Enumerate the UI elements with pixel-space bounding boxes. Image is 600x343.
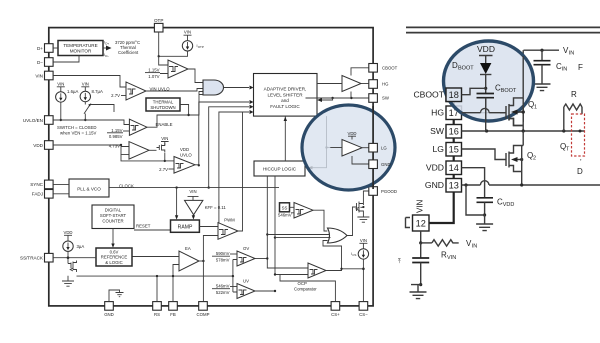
svg-text:ENABLE: ENABLE [156, 122, 173, 127]
svg-text:SHUTDOWN: SHUTDOWN [150, 105, 175, 110]
svg-text:1.15V: 1.15V [111, 128, 122, 133]
svg-text:546mV: 546mV [216, 284, 230, 289]
svg-text:VDD: VDD [33, 143, 43, 148]
svg-text:8.7µA: 8.7µA [92, 89, 103, 94]
svg-text:VIN: VIN [161, 136, 168, 141]
svg-text:CS−: CS− [359, 312, 368, 317]
svg-text:CS: CS [352, 253, 356, 257]
svg-text:VIN: VIN [57, 81, 64, 86]
svg-text:RAMP: RAMP [178, 225, 193, 231]
svg-text:578mV: 578mV [216, 257, 230, 262]
svg-text:DIGITAL: DIGITAL [105, 208, 122, 213]
svg-text:D−: D− [105, 54, 109, 58]
svg-text:SW: SW [382, 96, 390, 101]
svg-text:IN: IN [569, 51, 575, 57]
svg-text:RS: RS [154, 312, 160, 317]
svg-text:16: 16 [449, 127, 459, 137]
svg-text:VIN: VIN [35, 73, 43, 78]
svg-text:Comparator: Comparator [294, 286, 317, 291]
svg-text:SS/TRACK: SS/TRACK [20, 256, 44, 261]
svg-text:D: D [577, 167, 583, 176]
svg-text:VDD: VDD [426, 163, 444, 173]
svg-text:COUNTER: COUNTER [102, 218, 123, 223]
svg-text:VIN: VIN [82, 81, 89, 86]
svg-text:UVLO/EN: UVLO/EN [23, 118, 43, 123]
svg-text:HG: HG [382, 82, 389, 87]
svg-text:PWM: PWM [224, 217, 235, 222]
svg-text:VDD: VDD [477, 44, 495, 54]
svg-text:D+: D+ [105, 42, 109, 46]
svg-text:PGOOD: PGOOD [381, 189, 397, 194]
svg-text:VIN: VIN [184, 30, 191, 35]
svg-text:VIN: VIN [447, 255, 456, 261]
svg-text:CLOCK: CLOCK [119, 184, 134, 189]
svg-text:0.985V: 0.985V [109, 134, 123, 139]
svg-text:2.7V: 2.7V [111, 93, 120, 98]
svg-text:VDD: VDD [503, 202, 515, 208]
svg-text:GND: GND [104, 312, 114, 317]
svg-text:CBOOT: CBOOT [413, 90, 444, 100]
svg-text:GND: GND [425, 180, 444, 190]
svg-text:3µA: 3µA [77, 244, 85, 249]
svg-text:ADAPTIVE DRIVER,: ADAPTIVE DRIVER, [264, 87, 307, 92]
svg-text:& LOGIC: & LOGIC [105, 260, 122, 265]
svg-text:UV: UV [243, 278, 249, 283]
svg-text:CS+: CS+ [331, 312, 340, 317]
svg-text:LG: LG [433, 144, 445, 154]
svg-text:VIN: VIN [360, 238, 367, 243]
svg-text:2.7V: 2.7V [159, 167, 168, 172]
svg-text:VDD: VDD [63, 230, 72, 235]
svg-text:LEVEL SHIFTER: LEVEL SHIFTER [267, 92, 303, 97]
svg-text:VDD: VDD [347, 131, 356, 136]
svg-text:590mV: 590mV [216, 251, 230, 256]
svg-text:IN: IN [472, 244, 478, 250]
svg-text:⤒: ⤒ [398, 258, 401, 265]
svg-text:SOFT-START: SOFT-START [100, 213, 127, 218]
svg-text:1.15V: 1.15V [148, 68, 159, 73]
svg-text:2: 2 [533, 156, 536, 162]
svg-text:F: F [578, 63, 583, 72]
svg-text:when V​EN = 1.15V: when V​EN = 1.15V [60, 130, 97, 135]
svg-text:TEMPERATURE: TEMPERATURE [63, 43, 97, 48]
svg-text:1: 1 [534, 105, 537, 111]
svg-text:R: R [571, 90, 577, 99]
svg-text:12: 12 [416, 219, 426, 229]
svg-text:SW: SW [430, 126, 445, 136]
svg-text:OTP: OTP [154, 18, 163, 23]
svg-text:15: 15 [449, 145, 459, 155]
svg-text:D−: D− [37, 60, 43, 65]
svg-text:UVLO: UVLO [180, 152, 192, 157]
svg-text:THERMAL: THERMAL [153, 100, 174, 105]
svg-text:Coefficient: Coefficient [118, 50, 139, 55]
svg-text:14: 14 [449, 163, 459, 173]
svg-text:EA: EA [185, 246, 191, 251]
svg-text:COMP: COMP [197, 312, 210, 317]
svg-text:SS: SS [282, 205, 288, 210]
svg-text:BOOT: BOOT [458, 66, 474, 72]
svg-text:D+: D+ [37, 46, 43, 51]
svg-text:PLL & VCO: PLL & VCO [77, 186, 101, 191]
svg-text:RESET: RESET [136, 224, 151, 229]
svg-text:522mV: 522mV [216, 290, 230, 295]
svg-text:SYNC: SYNC [30, 182, 43, 187]
svg-text:546mV: 546mV [278, 212, 292, 217]
svg-text:MONITOR: MONITOR [70, 49, 92, 54]
svg-text:LG: LG [381, 146, 387, 151]
svg-text:IN: IN [562, 67, 568, 73]
svg-text:1.07V: 1.07V [148, 74, 159, 79]
svg-text:13: 13 [449, 181, 459, 191]
svg-text:HG: HG [431, 108, 444, 118]
svg-text:OTP: OTP [198, 45, 204, 49]
svg-text:K​FF = 0.11: K​FF = 0.11 [205, 205, 227, 210]
svg-text:BOOT: BOOT [501, 88, 517, 94]
svg-text:and: and [281, 98, 289, 103]
svg-text:18: 18 [449, 90, 459, 100]
svg-text:4.73V: 4.73V [109, 144, 120, 149]
svg-text:HICCUP LOGIC: HICCUP LOGIC [263, 167, 297, 172]
svg-text:GND: GND [381, 162, 391, 167]
svg-text:OV: OV [243, 246, 249, 251]
svg-text:VIN: VIN [189, 189, 196, 194]
svg-text:1.6µA: 1.6µA [67, 89, 78, 94]
svg-text:FAULT LOGIC: FAULT LOGIC [270, 104, 300, 109]
svg-text:FADJ: FADJ [32, 192, 43, 197]
svg-text:VIN: VIN [416, 199, 425, 213]
svg-text:FB: FB [170, 312, 176, 317]
svg-text:CBOOT: CBOOT [382, 66, 398, 71]
